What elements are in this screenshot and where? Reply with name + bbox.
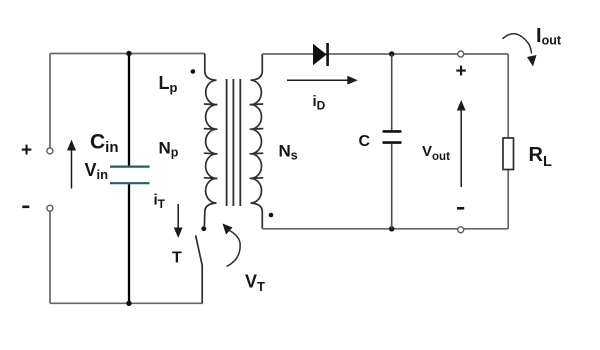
svg-text:Vout: Vout [422, 143, 450, 163]
svg-text:Vin: Vin [85, 160, 109, 182]
svg-text:RL: RL [529, 144, 552, 170]
svg-text:Iout: Iout [536, 25, 562, 48]
svg-text:Lp: Lp [159, 73, 178, 95]
diode D [313, 43, 328, 66]
terminal + output open circle [458, 51, 464, 57]
wire secondary bottom rail [262, 228, 508, 230]
svg-text:+: + [456, 61, 467, 82]
resistor RL box [503, 138, 514, 170]
terminal - output open circle [458, 227, 464, 233]
terminal - input open circle [47, 205, 53, 211]
node junction bottom C [389, 226, 394, 231]
node junction top C [389, 51, 394, 56]
capacitor C bottom plate [383, 141, 402, 144]
wire secondary top rail [262, 53, 508, 55]
wire input plus riser [49, 54, 51, 148]
svg-text:C: C [359, 133, 371, 150]
transformer primary phase dot [191, 69, 196, 74]
svg-text:+: + [21, 140, 32, 161]
transformer secondary phase dot [269, 213, 274, 218]
capacitor Cin bottom plate [110, 182, 150, 184]
capacitor Cin wire lower [128, 184, 130, 303]
node junction top Cin [126, 51, 131, 56]
capacitor C wire lower [391, 144, 393, 229]
capacitor C top plate [383, 130, 402, 133]
transformer primary winding [204, 54, 218, 227]
svg-text:Ns: Ns [279, 142, 298, 163]
transformer core bars [227, 79, 241, 206]
switch T blade [196, 235, 203, 303]
arrow iT [174, 204, 183, 238]
arrow Vin [67, 140, 76, 189]
label - input [22, 206, 29, 209]
wire bottom-left rail [50, 302, 203, 304]
arrow Iout arc [503, 34, 537, 67]
wire right rail lower [507, 170, 509, 229]
svg-text:iD: iD [313, 93, 326, 113]
wire right rail upper [507, 54, 509, 138]
wire input minus riser [49, 211, 51, 303]
svg-text:VT: VT [245, 272, 265, 295]
svg-text:Np: Np [159, 139, 179, 160]
capacitor Cin top plate [110, 166, 150, 168]
svg-text:T: T [172, 250, 182, 267]
transformer secondary winding [250, 54, 264, 229]
terminal + input open circle [47, 148, 53, 154]
capacitor Cin wire upper [128, 54, 130, 166]
switch T contact dot [201, 226, 206, 231]
capacitor C wire upper [391, 54, 393, 130]
label - output [457, 207, 464, 210]
arrow VT arc [223, 224, 241, 267]
node junction bottom Cin [126, 301, 131, 306]
svg-text:iT: iT [154, 192, 166, 212]
svg-text:Cin: Cin [90, 131, 119, 157]
arrow Vout [457, 100, 466, 187]
wire top-left rail [50, 53, 205, 55]
arrow iD [287, 76, 358, 85]
